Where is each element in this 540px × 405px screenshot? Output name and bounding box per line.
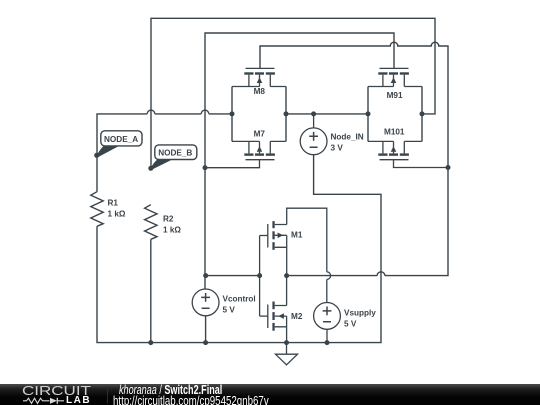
- junction M91 M101 right node: [420, 111, 425, 116]
- wire R2 bottom: [150, 239, 152, 342]
- wire M7 M8 loop: [232, 87, 286, 142]
- label R2 value: [163, 215, 181, 235]
- junction M1 M2 gate net: [257, 273, 262, 278]
- voltage source Node_IN: [300, 114, 327, 155]
- junction M101 gate tap: [446, 165, 451, 170]
- svg-text:M2: M2: [291, 312, 303, 321]
- junction Node_IN plus terminal: [311, 111, 316, 116]
- resistor R2: [145, 205, 157, 240]
- logo CIRCUIT LAB: [22, 385, 91, 397]
- svg-text:Node_IN: Node_IN: [331, 132, 364, 141]
- svg-text:R2: R2: [163, 215, 174, 224]
- node B anchor: [148, 166, 153, 171]
- transistor M7: [205, 141, 286, 167]
- flag NODE_B: [150, 145, 196, 169]
- junction M91 M101 left node: [366, 111, 371, 116]
- wire net3 third rail (M8 gate to M101 gate to switch node): [260, 42, 448, 275]
- transistor M91: [368, 68, 422, 86]
- svg-text:NODE_A: NODE_A: [104, 135, 138, 144]
- label Vcontrol: [223, 294, 256, 314]
- node A anchor: [94, 153, 99, 158]
- svg-text:M1: M1: [291, 230, 303, 239]
- junction ground node: [284, 340, 289, 345]
- svg-text:M101: M101: [384, 128, 405, 137]
- wire bottom rail: [97, 155, 381, 343]
- voltage source Vsupply: [314, 303, 341, 343]
- junction Vcontrol plus terminal: [203, 273, 208, 278]
- transistor M2: [260, 236, 287, 343]
- svg-text:3 V: 3 V: [331, 144, 344, 153]
- svg-text:Vsupply: Vsupply: [344, 308, 376, 317]
- wire vcontrol net to gates: [206, 275, 260, 277]
- junction switch output node: [284, 273, 289, 278]
- junction R2 bottom: [148, 340, 153, 345]
- wire net2 second rail: [205, 33, 394, 289]
- svg-text:M91: M91: [387, 91, 403, 100]
- footer bar: [0, 384, 540, 405]
- wire node A horizontal: [97, 110, 232, 192]
- junction M7 M8 right node: [284, 111, 289, 116]
- resistor R1: [91, 192, 103, 227]
- svg-text:5 V: 5 V: [223, 305, 236, 314]
- junction M7 M8 left node: [230, 111, 235, 116]
- transistor M8: [232, 68, 286, 86]
- svg-text:M8: M8: [254, 87, 266, 96]
- junction M7 gate tap: [203, 165, 208, 170]
- svg-text:5 V: 5 V: [344, 319, 357, 328]
- wire M91 M101 loop: [368, 87, 422, 142]
- svg-text:1 kΩ: 1 kΩ: [163, 226, 181, 235]
- label R1 value: [108, 198, 126, 218]
- junction Vcontrol minus terminal: [203, 340, 208, 345]
- svg-text:NODE_B: NODE_B: [158, 149, 192, 158]
- svg-text:M7: M7: [254, 129, 266, 138]
- svg-text:R1: R1: [108, 198, 119, 207]
- ground: [276, 343, 298, 365]
- wire net1 top rail: [151, 18, 435, 168]
- label Vsupply: [344, 308, 376, 328]
- wire vcontrol column: [205, 316, 207, 343]
- wire mid horizontal (pass-gate outputs to Node_IN): [286, 113, 368, 115]
- voltage source Vcontrol: [192, 289, 219, 316]
- junction Vsupply minus terminal: [325, 340, 330, 345]
- transistor M1: [260, 208, 331, 302]
- transistor M101: [368, 141, 448, 167]
- label Node_IN: [331, 132, 364, 152]
- flag NODE_A: [96, 131, 142, 157]
- svg-text:1 kΩ: 1 kΩ: [108, 209, 126, 218]
- svg-text:Vcontrol: Vcontrol: [223, 294, 256, 303]
